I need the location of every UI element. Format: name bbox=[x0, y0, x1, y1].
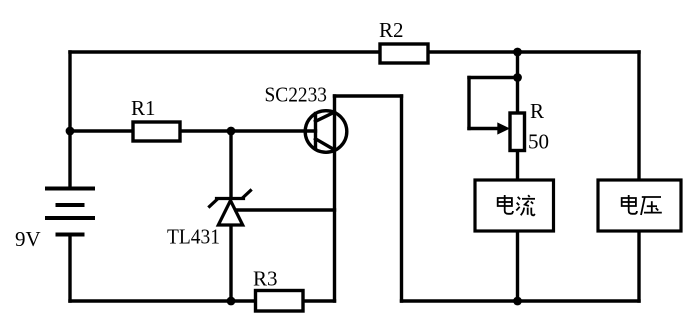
node C (TL431 anode / R3) bbox=[227, 297, 236, 306]
wire right vertical to voltmeter top bbox=[637, 52, 640, 180]
wire pot branch top bbox=[516, 52, 519, 113]
wire ammeter bottom bbox=[516, 231, 519, 301]
resistor R1 bbox=[133, 122, 180, 141]
label 电压 (drawn glyphs) bbox=[622, 195, 637, 214]
wire battery bottom stub bbox=[68, 237, 71, 302]
svg-text:SC2233: SC2233 bbox=[265, 83, 328, 107]
wire collector top bbox=[335, 94, 402, 97]
node B (base/TL431) bbox=[227, 127, 236, 136]
svg-text:R1: R1 bbox=[131, 96, 156, 120]
svg-text:R: R bbox=[530, 99, 544, 123]
battery B1 9V bbox=[45, 189, 95, 235]
wire bottom right bbox=[402, 299, 640, 302]
ammeter box 电流 bbox=[475, 180, 554, 231]
wire R3 to emitter bbox=[303, 299, 335, 302]
wire top right (R2 to voltmeter) bbox=[428, 50, 639, 53]
wire pot to ammeter bbox=[516, 151, 519, 181]
wire pot loop top bbox=[469, 76, 518, 79]
wire TL431 anode down bbox=[229, 226, 232, 301]
svg-text:R3: R3 bbox=[253, 267, 278, 291]
node A (R1 branch) bbox=[66, 127, 75, 136]
wire TL431 cathode up bbox=[229, 131, 232, 197]
node F (ammeter bottom) bbox=[513, 297, 522, 306]
label 电流 (drawn glyphs) bbox=[498, 195, 513, 214]
wire transistor vertical bbox=[333, 96, 336, 301]
transistor Q1 SC2233 bbox=[305, 111, 347, 153]
svg-text:R2: R2 bbox=[379, 18, 404, 42]
wire pot wiper bbox=[469, 127, 499, 130]
wire top left (battery + to R2) bbox=[70, 50, 380, 53]
node D (top wire / pot) bbox=[513, 48, 522, 57]
svg-text:50: 50 bbox=[528, 130, 549, 154]
shunt regulator TL431 bbox=[210, 191, 251, 226]
wire pot loop left bbox=[467, 78, 470, 129]
wire left vertical (battery +) bbox=[68, 52, 71, 187]
voltmeter box 电压 bbox=[598, 180, 681, 231]
wire collector down right bbox=[400, 96, 403, 301]
resistor R2 bbox=[380, 44, 428, 63]
svg-text:9V: 9V bbox=[15, 227, 41, 251]
node E (pot loop) bbox=[513, 73, 522, 82]
potentiometer R 50 bbox=[497, 113, 524, 151]
wire R1 left bbox=[70, 129, 133, 132]
wire voltmeter bottom bbox=[637, 231, 640, 301]
resistor R3 bbox=[256, 291, 304, 312]
svg-text:TL431: TL431 bbox=[167, 225, 220, 249]
wire TL431 ref to emitter line bbox=[236, 208, 335, 211]
wire R1 right to base bbox=[180, 129, 316, 132]
wire bottom left bbox=[70, 299, 256, 302]
